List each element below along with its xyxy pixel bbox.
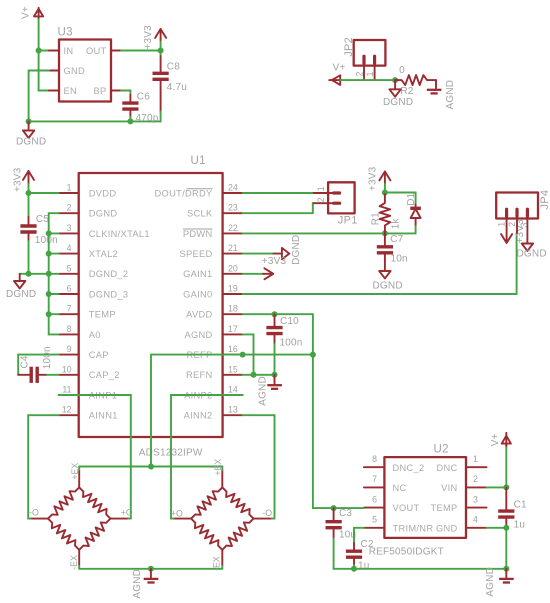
svg-text:8: 8 [67,324,72,334]
svg-text:U3: U3 [58,27,73,39]
supply V+ above C1 [490,433,511,488]
svg-text:5: 5 [372,515,377,525]
svg-text:7: 7 [67,304,72,314]
svg-text:+EX: +EX [70,463,80,480]
svg-text:1: 1 [473,454,478,464]
svg-text:5: 5 [67,263,72,273]
U1 right pin names [155,188,213,420]
svg-text:R1: R1 [371,212,382,225]
U3 pin names [64,46,107,96]
svg-text:100n: 100n [42,346,53,369]
wire SCLK to JP1 pin2 [243,203,314,213]
wire AINN2 [243,415,275,518]
wire AINP2 crossing box [171,395,243,519]
wire AINN1 [28,415,59,518]
svg-text:C8: C8 [167,62,180,73]
capacitor C1 [498,487,527,530]
svg-text:XTAL2: XTAL2 [89,249,118,259]
svg-text:AGND: AGND [132,569,143,599]
wire REFP down to bridge rail [150,355,152,467]
supply +3V3 [143,25,166,51]
ground DGND under C7 [373,271,403,292]
ground DGND at SPEED [274,235,303,265]
svg-text:23: 23 [228,203,238,213]
svg-text:24: 24 [228,183,238,193]
svg-text:-EX: -EX [69,555,79,570]
svg-text:+EX: +EX [213,459,223,476]
svg-text:4: 4 [67,243,72,253]
pin EN [49,90,59,92]
svg-text:DGND: DGND [517,249,547,260]
pin OUT [111,50,121,52]
pin IN [49,50,59,52]
svg-text:AVDD: AVDD [186,310,212,320]
svg-text:0: 0 [399,65,405,76]
svg-text:AINN2: AINN2 [184,411,213,421]
svg-text:2: 2 [355,72,365,77]
svg-text:16: 16 [228,344,238,354]
capacitor C4 [18,346,59,383]
svg-text:20: 20 [228,263,238,273]
supply +3V3 at pin 1 [12,167,34,192]
U1 left pin names [89,188,150,420]
wire V+ to R2 [340,79,395,81]
svg-text:8: 8 [372,454,377,464]
U2 pin numbers [372,454,478,525]
svg-text:+3V3: +3V3 [12,167,23,192]
connector JP4 [496,190,550,219]
capacitor C5 [20,193,57,274]
svg-text:PDWN: PDWN [183,229,213,239]
svg-text:1: 1 [365,72,375,77]
svg-text:CAP_2: CAP_2 [89,370,120,380]
svg-text:DGND: DGND [89,209,118,219]
node VOUT wire [331,505,337,511]
capacitor C2 [346,539,374,572]
svg-text:2: 2 [507,222,517,227]
svg-text:DGND: DGND [291,235,302,265]
svg-text:JP2: JP2 [343,37,355,57]
svg-text:NC: NC [393,483,407,493]
svg-text:AGND: AGND [184,330,212,340]
svg-text:EN: EN [64,86,78,96]
svg-text:12: 12 [62,405,72,415]
pin 2 lead [363,64,365,81]
capacitor C8 [153,51,188,122]
U1 right pin numbers [228,183,238,415]
svg-text:DGND: DGND [16,137,46,148]
svg-text:JP4: JP4 [539,190,550,210]
svg-text:D1: D1 [406,192,417,205]
wire DOUT to JP1 pin1 [243,192,314,194]
svg-text:3: 3 [519,223,529,228]
svg-text:9: 9 [67,344,72,354]
svg-text:+3V3: +3V3 [262,256,287,267]
svg-text:AGND: AGND [485,567,496,597]
node at DGND [26,118,32,124]
JP4 pin1 to +3V3 down arrow [497,216,526,243]
svg-text:VIN: VIN [441,483,457,493]
supply V+ left arrow [329,63,345,85]
ground DGND below junction [383,80,413,108]
bridge sensor left: resistor arms [29,463,133,570]
U1 left pin stubs 1-12 [59,193,79,415]
svg-text:TEMP: TEMP [430,503,457,513]
svg-text:3: 3 [67,223,72,233]
svg-text:C4: C4 [20,355,31,368]
right bridge leads [171,467,275,569]
ground AGND bottom right [485,567,514,597]
wire OUT to +3V3 node [121,50,161,52]
svg-text:VOUT: VOUT [393,503,420,513]
left bridge leads [28,467,131,569]
svg-text:V+: V+ [21,6,32,19]
svg-text:-O: -O [262,508,272,518]
svg-text:DGND_3: DGND_3 [89,289,129,299]
capacitor C3 [326,508,357,569]
svg-text:C5: C5 [36,214,49,225]
IC U1 box [79,155,223,459]
svg-text:JP1: JP1 [338,215,358,227]
wire AVDD node [243,314,334,508]
svg-text:REFN: REFN [186,370,213,380]
supply +3V3 at GAIN1 [243,256,287,280]
wire pin9 to C4 [18,355,59,375]
svg-text:3: 3 [473,494,478,504]
pin 1 lead [374,64,376,81]
op-amp U3 regulator box [58,27,112,102]
wire bottom rail [29,120,161,122]
wire REFP row [151,354,313,356]
svg-text:-O: -O [29,507,39,517]
wire TRIM to C2 [354,528,364,543]
wire BP to C6 [121,91,130,96]
supply V+ [21,6,44,19]
svg-text:4: 4 [473,515,478,525]
svg-text:DVDD: DVDD [89,188,117,198]
JP4 pin2 lead [507,216,517,233]
connector JP1 [314,182,358,226]
svg-text:4.7u: 4.7u [167,82,187,93]
svg-text:DGND_2: DGND_2 [89,269,129,279]
svg-text:2: 2 [473,474,478,484]
wire to IN [39,50,49,52]
svg-text:C1: C1 [514,499,527,510]
ground AGND right of R2 [427,80,456,110]
svg-text:2: 2 [67,203,72,213]
wire PDWN row to R1/D1 [243,232,416,234]
U2 right stubs [466,467,487,528]
svg-text:18: 18 [228,304,238,314]
svg-text:1: 1 [67,183,72,193]
svg-text:C6: C6 [137,92,150,103]
svg-text:+O: +O [171,509,183,519]
wire REFN row [243,374,275,376]
wire DGND bus pins 2-8 [49,213,59,334]
svg-text:6: 6 [67,284,72,294]
svg-text:CAP: CAP [89,350,109,360]
svg-text:100n: 100n [35,235,58,246]
svg-text:1: 1 [497,222,507,227]
U2 left stubs [364,467,385,528]
wire AGND rail bottom right [334,568,507,570]
svg-text:BP: BP [93,86,106,96]
svg-text:22: 22 [228,223,238,233]
svg-text:7: 7 [372,474,377,484]
svg-text:C2: C2 [361,539,374,550]
svg-text:470p: 470p [136,113,159,124]
svg-text:17: 17 [228,324,238,334]
svg-text:A0: A0 [89,330,101,340]
svg-text:DGND: DGND [6,289,36,300]
svg-text:DGND: DGND [373,281,403,292]
svg-text:6: 6 [372,494,377,504]
resistor R1 [371,193,402,234]
ground DGND [6,274,36,300]
svg-text:OUT: OUT [86,46,107,56]
pin GND [49,70,59,72]
wire DGND row [20,273,59,275]
U2 pin names [393,463,458,534]
U1 left pin numbers [62,183,72,415]
wire AGND pin17 [243,334,254,374]
svg-text:13: 13 [228,405,238,415]
svg-text:SCLK: SCLK [187,209,213,219]
svg-text:R2: R2 [400,86,413,97]
svg-text:-EX: -EX [212,556,222,571]
pin BP [111,90,121,92]
wire GND pin4 [487,527,507,529]
svg-text:C3: C3 [339,508,352,519]
capacitor C7 [377,233,408,271]
svg-text:CLKIN/XTAL1: CLKIN/XTAL1 [89,229,150,239]
svg-text:C10: C10 [280,316,299,327]
bridge sensor right: resistor arms [171,459,272,571]
capacitor C10 [266,314,302,375]
IC U2 box [369,444,466,558]
node at C6 bottom [127,118,133,124]
svg-text:DOUT/DRDY: DOUT/DRDY [155,188,213,198]
svg-text:U1: U1 [191,155,206,167]
svg-text:+O: +O [121,508,133,518]
svg-text:1k: 1k [390,218,401,230]
wire V+ to IN and EN [39,19,49,90]
svg-text:10n: 10n [391,254,408,265]
capacitor C6 [122,92,158,124]
svg-text:10: 10 [62,364,72,374]
resistor R2 [395,65,436,97]
wire +EX rail [79,466,222,468]
svg-text:V+: V+ [490,433,501,446]
svg-text:GND: GND [436,523,458,533]
ground DGND [16,121,46,147]
svg-text:GAIN0: GAIN0 [183,289,212,299]
svg-text:GND: GND [64,66,86,76]
svg-text:14: 14 [228,385,238,395]
svg-text:+3V3: +3V3 [368,166,379,191]
svg-text:C7: C7 [390,234,403,245]
svg-text:AINN1: AINN1 [89,411,118,421]
svg-text:1: 1 [316,186,326,191]
svg-text:TEMP: TEMP [89,310,116,320]
diode D1 [385,192,421,233]
svg-text:1u: 1u [514,519,526,530]
svg-text:DNC: DNC [436,463,457,473]
svg-text:DNC_2: DNC_2 [393,463,425,473]
svg-text:11: 11 [62,385,71,395]
svg-text:TRIM/NR: TRIM/NR [393,523,434,533]
wire VIN node [487,486,507,488]
connector JP2 [343,37,385,66]
wire SPEED to DGND [243,253,274,255]
svg-text:U2: U2 [434,444,449,456]
svg-text:2: 2 [316,197,326,202]
svg-text:DGND: DGND [383,97,413,108]
wire stubs to pins 3-7 [49,232,59,234]
svg-text:IN: IN [64,46,74,56]
wire AINP1 crossing box [59,395,131,519]
wire +3V3 to pin1 [29,184,59,193]
wire GAIN0 to JP4 pin2 [243,233,517,294]
wire -EX rail [79,568,222,570]
supply +3V3 above R1 [368,166,391,191]
svg-text:AGND: AGND [445,80,456,110]
U1 right pin stubs 24-13 [223,193,243,415]
wire GND to DGND rail [29,71,49,122]
svg-text:100n: 100n [280,337,303,348]
node junction at IN [36,48,42,54]
svg-text:15: 15 [228,364,238,374]
ground AGND under C10 [258,375,282,406]
svg-text:+3V3: +3V3 [143,25,154,50]
svg-text:21: 21 [228,243,238,253]
ground AGND bottom center [132,569,158,599]
svg-text:REF5050IDGKT: REF5050IDGKT [369,546,444,557]
svg-text:GAIN1: GAIN1 [183,269,212,279]
svg-text:V+: V+ [333,63,346,74]
svg-text:SPEED: SPEED [179,249,212,259]
svg-text:AGND: AGND [258,376,269,406]
svg-text:19: 19 [228,284,238,294]
JP4 pin3 to DGND [517,216,547,259]
